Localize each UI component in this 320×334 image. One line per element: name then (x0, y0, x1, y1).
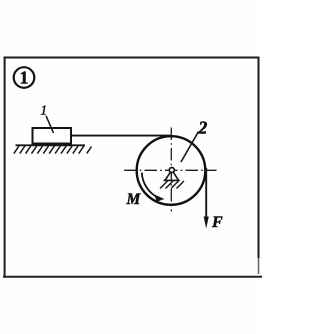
svg-text:2: 2 (198, 117, 208, 137)
svg-text:1: 1 (40, 103, 47, 118)
svg-text:M: M (126, 191, 142, 208)
svg-text:1: 1 (20, 68, 29, 88)
svg-text:F: F (211, 214, 223, 231)
